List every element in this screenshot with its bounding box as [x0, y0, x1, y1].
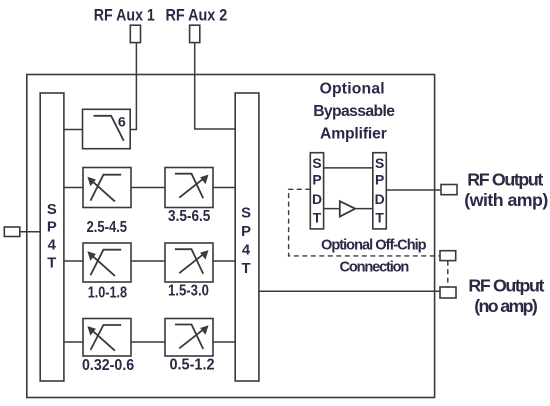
wire: LPF 1.5-3.0 to SP4T #2	[213, 260, 235, 262]
switch SP4T #1	[40, 93, 64, 381]
svg-text:RF Output: RF Output	[468, 275, 544, 295]
wire: SPDT #2 to RF Output (with amp)	[386, 189, 441, 191]
wire: RF Aux 2 down to SP4T #2	[195, 43, 236, 129]
wire: SP4T #1 to HPF 1.0-1.8	[64, 260, 83, 262]
svg-text:P: P	[47, 220, 57, 236]
wire: HPF 2.5-4.5 to LPF 3.5-6.5	[131, 187, 165, 189]
wire: RF input to SP4T #1	[20, 231, 40, 233]
label: RF Output (with amp)	[464, 169, 548, 210]
port: RF Output (no amp)	[440, 287, 456, 298]
port: off-chip connection	[440, 251, 456, 261]
label: SP4T #1	[47, 202, 57, 271]
svg-text:2.5-4.5: 2.5-4.5	[87, 219, 128, 236]
wire: amplifier to SPDT #2	[356, 208, 373, 210]
svg-text:P: P	[375, 172, 384, 188]
dashed wire: off-chip bypass from SPDT #1 to off-chip port	[289, 189, 440, 256]
filter block: tunable HPF 0.32-0.6	[83, 319, 131, 357]
port: RF input (left)	[4, 227, 19, 237]
wire: SP4T #1 to LPF6	[64, 129, 83, 131]
wire: RF Aux 1 down to LPF6 block	[130, 43, 136, 130]
svg-text:P: P	[241, 224, 251, 240]
icon: high-pass response with tuning arrow	[87, 250, 121, 276]
wire: HPF 1.0-1.8 to LPF 1.5-3.0	[131, 260, 165, 262]
filter block: low-pass 6th order	[83, 109, 131, 148]
svg-text:Optional: Optional	[320, 81, 385, 98]
port: RF Output (with amp)	[441, 185, 457, 195]
svg-text:RF Aux 1: RF Aux 1	[94, 6, 155, 25]
svg-text:(no amp): (no amp)	[474, 296, 538, 316]
svg-text:RF Output: RF Output	[467, 169, 543, 189]
svg-text:S: S	[312, 155, 321, 171]
svg-text:RF Aux 2: RF Aux 2	[166, 6, 228, 25]
svg-text:1.5-3.0: 1.5-3.0	[168, 282, 209, 299]
filter block: tunable LPF 0.5-1.2	[165, 319, 213, 357]
wire: bypass path (top) between SPDTs	[324, 167, 373, 169]
svg-text:0.5-1.2: 0.5-1.2	[169, 356, 214, 373]
label: Optional Bypassable Amplifier	[313, 81, 395, 143]
svg-text:T: T	[313, 209, 322, 225]
svg-text:1.0-1.8: 1.0-1.8	[88, 284, 128, 301]
svg-text:Bypassable: Bypassable	[313, 103, 395, 120]
icon: low-pass response with tuning arrow	[175, 249, 209, 274]
icon: low-pass response curve	[94, 116, 124, 141]
wire: SP4T #2 to RF Output (no amp)	[259, 290, 440, 292]
amplifier U1	[340, 201, 355, 216]
svg-text:P: P	[312, 172, 321, 188]
svg-text:D: D	[375, 191, 385, 207]
dashed wire: off-chip port to no-amp port	[447, 261, 449, 287]
icon: high-pass response with tuning arrow	[87, 325, 121, 351]
filter block: tunable HPF 2.5-4.5	[83, 168, 131, 208]
svg-text:Connection: Connection	[339, 259, 409, 275]
wire: HPF 0.32-0.6 to LPF 0.5-1.2	[131, 341, 165, 343]
label: SP4T #2	[241, 206, 251, 278]
label: SPDT #1	[312, 155, 322, 225]
svg-text:T: T	[375, 209, 384, 225]
wire: LPF 0.5-1.2 to SP4T #2	[213, 341, 235, 343]
svg-text:4: 4	[48, 238, 57, 254]
filter block: tunable LPF 1.5-3.0	[165, 243, 213, 282]
svg-text:D: D	[312, 191, 322, 207]
svg-text:T: T	[47, 255, 56, 271]
svg-text:S: S	[375, 155, 384, 171]
switch SP4T #2	[235, 93, 259, 381]
svg-text:S: S	[241, 206, 251, 222]
label: Optional Off-Chip Connection	[321, 238, 427, 276]
svg-text:6: 6	[118, 115, 126, 131]
svg-text:T: T	[241, 261, 250, 277]
filter block: tunable LPF 3.5-6.5	[165, 168, 213, 208]
svg-text:Optional Off-Chip: Optional Off-Chip	[321, 238, 427, 254]
svg-text:0.32-0.6: 0.32-0.6	[82, 357, 134, 374]
filter block: tunable HPF 1.0-1.8	[83, 243, 131, 282]
outer chip boundary	[27, 75, 435, 398]
wire: SP4T #1 to HPF 2.5-4.5	[64, 187, 83, 189]
label: RF Output (no amp)	[468, 275, 544, 316]
svg-text:(with amp): (with amp)	[464, 190, 548, 210]
svg-text:4: 4	[242, 243, 251, 259]
wire: LPF 3.5-6.5 to SP4T #2	[213, 187, 235, 189]
port: RF Aux 1	[130, 25, 140, 42]
wire: SPDT #1 to amplifier	[324, 208, 340, 210]
switch SPDT #2	[373, 153, 387, 229]
switch SPDT #1	[310, 153, 323, 229]
svg-text:S: S	[47, 202, 57, 218]
port: RF Aux 2	[190, 25, 200, 42]
svg-text:Amplifier: Amplifier	[320, 126, 387, 143]
icon: high-pass response with tuning arrow	[87, 175, 121, 202]
icon: low-pass response with tuning arrow	[175, 174, 209, 199]
label: SPDT #2	[375, 155, 385, 225]
svg-text:3.5-6.5: 3.5-6.5	[168, 208, 211, 225]
wire: SP4T #1 to HPF 0.32-0.6	[64, 341, 83, 343]
icon: low-pass response with tuning arrow	[175, 325, 209, 350]
